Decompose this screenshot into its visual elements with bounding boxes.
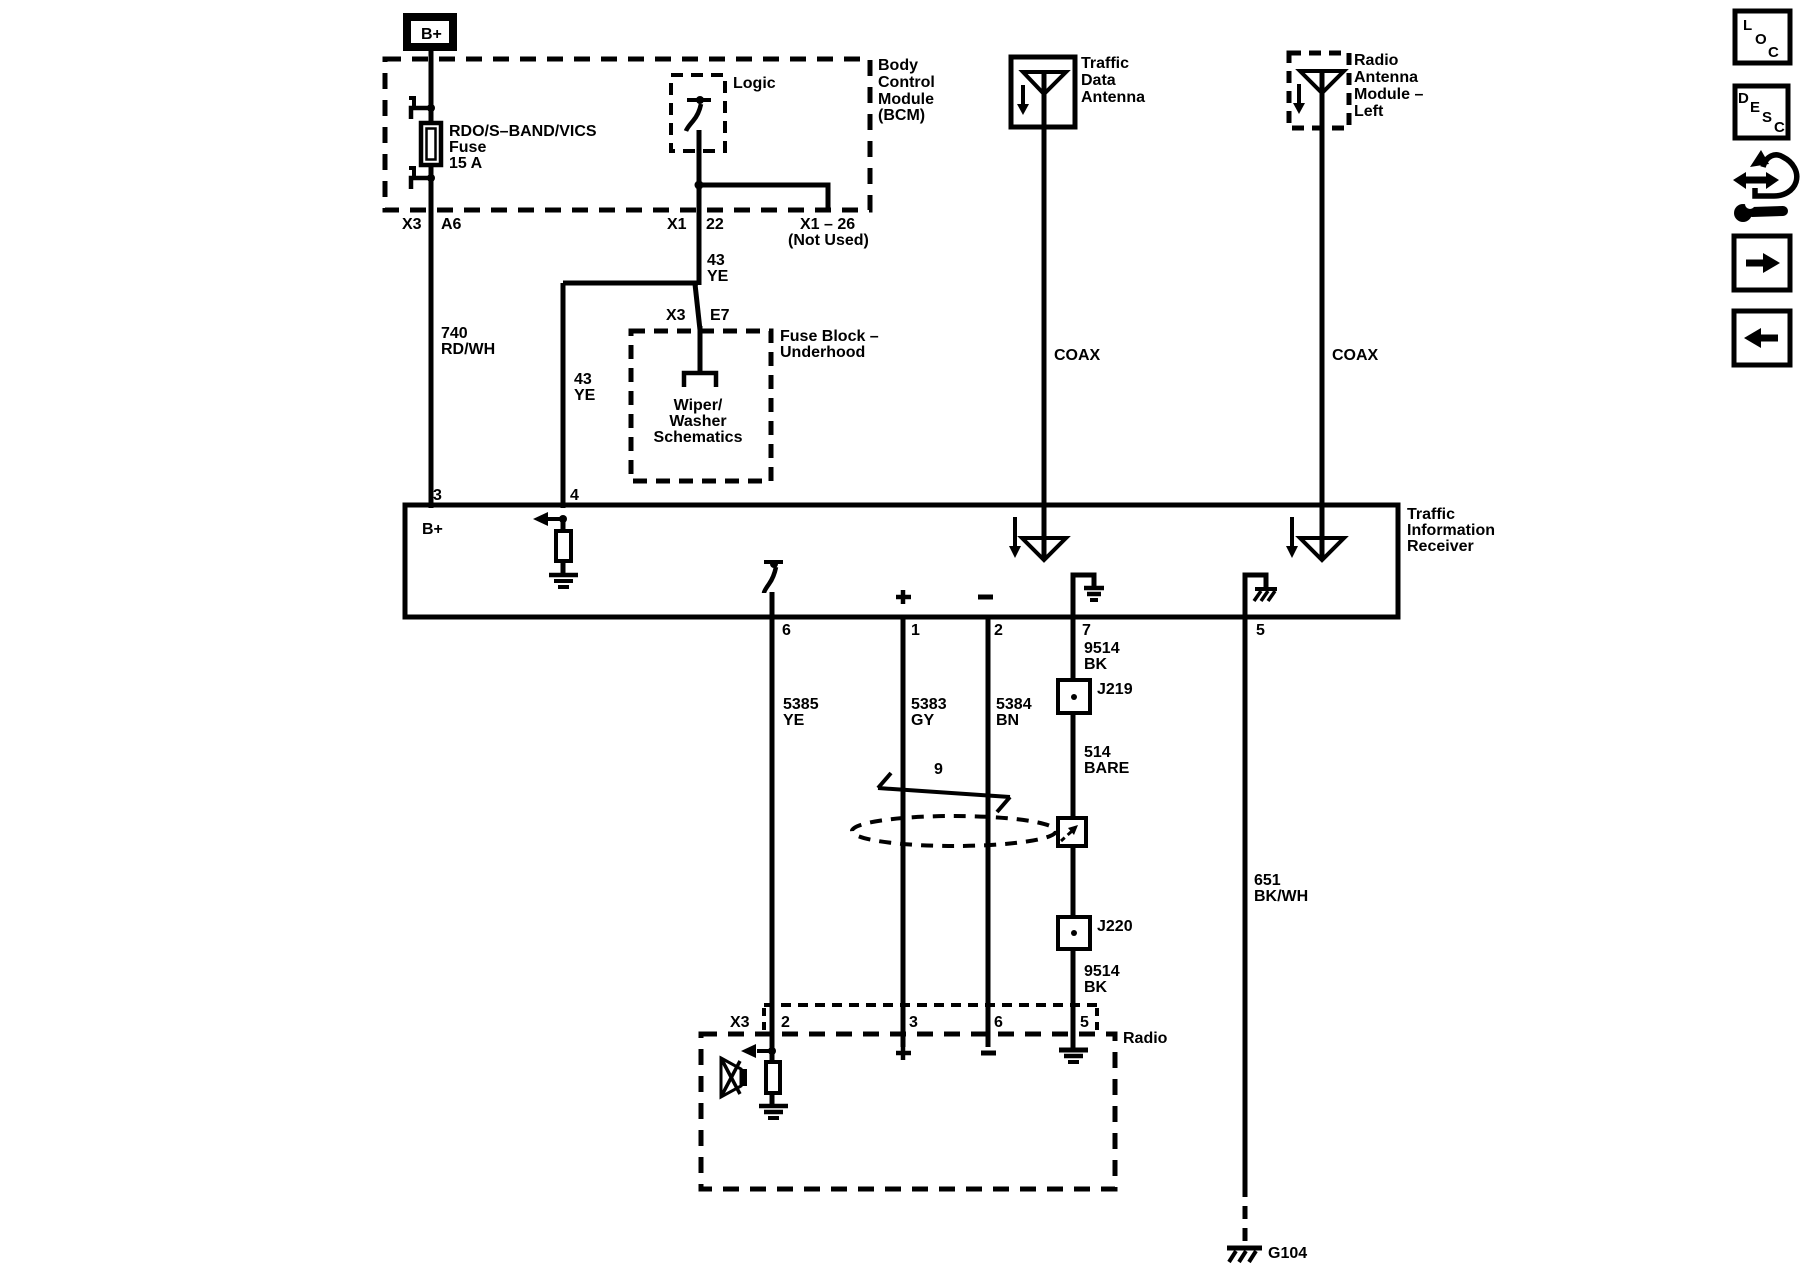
svg-text:X3: X3 (666, 307, 686, 324)
svg-text:(BCM): (BCM) (878, 107, 925, 124)
svg-text:9514: 9514 (1084, 640, 1120, 657)
svg-text:Fuse: Fuse (449, 139, 486, 156)
svg-text:4: 4 (570, 487, 579, 504)
svg-text:E: E (1750, 99, 1760, 116)
svg-text:9: 9 (934, 761, 943, 778)
svg-text:5383: 5383 (911, 696, 947, 713)
svg-text:5: 5 (1256, 622, 1265, 639)
svg-text:5: 5 (1080, 1014, 1089, 1031)
svg-text:15 A: 15 A (449, 155, 483, 172)
svg-text:Traffic: Traffic (1081, 55, 1129, 72)
svg-text:Underhood: Underhood (780, 344, 865, 361)
svg-text:Information: Information (1407, 522, 1495, 539)
svg-text:Module –: Module – (1354, 86, 1423, 103)
svg-text:BK: BK (1084, 979, 1108, 996)
svg-text:9514: 9514 (1084, 963, 1120, 980)
svg-text:Module: Module (878, 91, 934, 108)
svg-text:A6: A6 (441, 216, 462, 233)
svg-text:Schematics: Schematics (654, 429, 743, 446)
svg-text:COAX: COAX (1054, 347, 1101, 364)
svg-text:Wiper/: Wiper/ (674, 397, 723, 414)
svg-text:C: C (1774, 119, 1785, 136)
svg-text:X1: X1 (667, 216, 687, 233)
svg-text:3: 3 (909, 1014, 918, 1031)
svg-text:YE: YE (707, 268, 729, 285)
svg-text:RD/WH: RD/WH (441, 341, 495, 358)
svg-text:X1 – 26: X1 – 26 (800, 216, 855, 233)
svg-text:YE: YE (783, 712, 805, 729)
svg-text:Washer: Washer (669, 413, 726, 430)
svg-text:6: 6 (782, 622, 791, 639)
svg-text:43: 43 (574, 371, 592, 388)
svg-text:7: 7 (1082, 622, 1091, 639)
svg-text:S: S (1762, 109, 1772, 126)
svg-text:3: 3 (433, 487, 442, 504)
svg-text:Radio: Radio (1354, 52, 1399, 69)
svg-text:5384: 5384 (996, 696, 1032, 713)
svg-text:514: 514 (1084, 744, 1111, 761)
svg-text:X3: X3 (730, 1014, 750, 1031)
svg-text:BARE: BARE (1084, 760, 1130, 777)
svg-text:G104: G104 (1268, 1245, 1307, 1262)
svg-text:Control: Control (878, 74, 935, 91)
svg-text:Antenna: Antenna (1354, 69, 1418, 86)
svg-text:C: C (1768, 44, 1779, 61)
svg-text:BK/WH: BK/WH (1254, 888, 1308, 905)
svg-text:6: 6 (994, 1014, 1003, 1031)
svg-text:J219: J219 (1097, 681, 1133, 698)
svg-text:BN: BN (996, 712, 1019, 729)
svg-text:J220: J220 (1097, 918, 1133, 935)
svg-text:740: 740 (441, 325, 468, 342)
svg-text:2: 2 (781, 1014, 790, 1031)
svg-text:Radio: Radio (1123, 1030, 1168, 1047)
svg-text:YE: YE (574, 387, 596, 404)
svg-text:5385: 5385 (783, 696, 819, 713)
svg-text:Receiver: Receiver (1407, 538, 1474, 555)
svg-text:Left: Left (1354, 103, 1384, 120)
svg-text:RDO/S–BAND/VICS: RDO/S–BAND/VICS (449, 123, 597, 140)
svg-text:E7: E7 (710, 307, 730, 324)
svg-text:22: 22 (706, 216, 724, 233)
svg-text:2: 2 (994, 622, 1003, 639)
svg-text:Body: Body (878, 57, 918, 74)
svg-text:1: 1 (911, 622, 920, 639)
svg-text:43: 43 (707, 252, 725, 269)
svg-text:Logic: Logic (733, 75, 776, 92)
svg-text:Fuse Block –: Fuse Block – (780, 328, 879, 345)
svg-text:651: 651 (1254, 872, 1281, 889)
svg-text:D: D (1738, 90, 1749, 107)
svg-text:B+: B+ (421, 26, 442, 43)
svg-text:Traffic: Traffic (1407, 506, 1455, 523)
svg-text:GY: GY (911, 712, 934, 729)
svg-text:COAX: COAX (1332, 347, 1379, 364)
svg-text:Data: Data (1081, 72, 1116, 89)
svg-text:(Not Used): (Not Used) (788, 232, 869, 249)
svg-text:Antenna: Antenna (1081, 89, 1145, 106)
svg-text:X3: X3 (402, 216, 422, 233)
svg-text:O: O (1755, 31, 1767, 48)
svg-text:BK: BK (1084, 656, 1108, 673)
svg-text:L: L (1743, 17, 1752, 34)
svg-text:B+: B+ (422, 521, 443, 538)
